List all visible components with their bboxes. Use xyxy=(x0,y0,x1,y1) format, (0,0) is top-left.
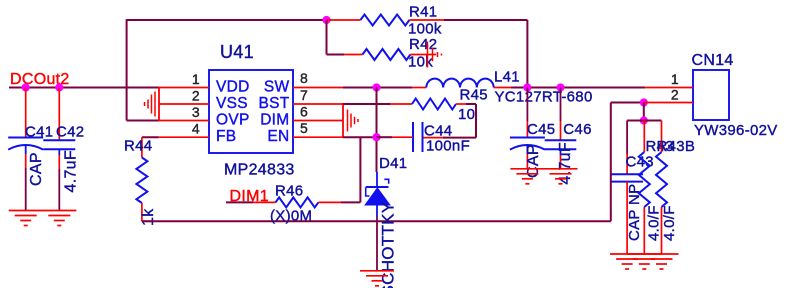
wire SW drop to EN row and D41 xyxy=(376,88,378,173)
diode D41 schottky xyxy=(376,172,378,187)
capacitor C41 xyxy=(25,88,27,138)
svg-text:U41: U41 xyxy=(220,42,254,62)
svg-text:SW: SW xyxy=(264,79,290,96)
ground below C46 xyxy=(544,168,578,170)
svg-text:10: 10 xyxy=(458,106,475,123)
svg-text:1k: 1k xyxy=(140,208,157,226)
U41 pin 5 wire EN xyxy=(293,136,343,138)
node junction dot pin2 net xyxy=(640,98,648,106)
svg-text:YW396-02V: YW396-02V xyxy=(694,122,778,139)
wire R45 to C44 xyxy=(466,103,476,105)
wire SW node run xyxy=(343,87,412,89)
wire dot to parallel bar xyxy=(643,103,645,121)
ground earth symbol right of U41 pin 6 xyxy=(347,110,349,132)
connector CN14 body xyxy=(693,70,729,120)
resistor R43B xyxy=(661,121,663,153)
svg-text:4.0/F: 4.0/F xyxy=(646,205,663,241)
svg-text:6: 6 xyxy=(300,104,308,120)
wire red bracket tying pins 7,6,5 xyxy=(342,103,344,138)
svg-text:C41: C41 xyxy=(25,124,53,141)
U41 pin 1 wire VDD xyxy=(159,87,209,89)
wire DCOut2 main horizontal net xyxy=(9,87,159,89)
svg-text:2: 2 xyxy=(192,88,200,104)
ground below C42 xyxy=(42,210,76,212)
svg-text:1: 1 xyxy=(671,71,679,87)
svg-text:R46: R46 xyxy=(275,183,303,200)
svg-text:YC127RT-680: YC127RT-680 xyxy=(495,89,593,106)
ground below D41 xyxy=(360,270,394,272)
ground earth symbol at R42 right xyxy=(427,42,429,68)
svg-text:4.0/F: 4.0/F xyxy=(661,205,678,241)
svg-text:C46: C46 xyxy=(563,121,591,138)
ground earth symbol left of U41 pins 2-3 xyxy=(154,92,156,117)
svg-text:MP24833: MP24833 xyxy=(224,162,295,179)
U41 pin 4 wire FB xyxy=(159,136,209,138)
U41 pin 7 wire BST xyxy=(293,103,343,105)
ground below C43 xyxy=(610,253,644,255)
U41 pin 8 wire SW xyxy=(293,87,343,89)
svg-text:R43B: R43B xyxy=(657,138,696,155)
wire parallel bar xyxy=(627,120,661,122)
U41 pin 2 wire VSS xyxy=(159,103,209,105)
node junction dot parallel bar xyxy=(640,116,648,124)
svg-text:8: 8 xyxy=(300,70,308,86)
wire EN drop to R46 xyxy=(359,137,361,202)
CN14 pin 2 wire xyxy=(644,102,693,104)
svg-text:100k: 100k xyxy=(408,21,442,38)
op-amp U41 MP24833 IC body xyxy=(209,70,293,153)
svg-text:CAP: CAP xyxy=(28,152,45,186)
resistor R46 xyxy=(253,201,276,203)
ground below C41 xyxy=(9,210,43,212)
resistor R44 xyxy=(142,136,159,138)
svg-text:CN14: CN14 xyxy=(692,52,734,69)
capacitor C46 xyxy=(560,88,562,122)
ground below R43B xyxy=(645,253,679,255)
svg-text:4.7uF: 4.7uF xyxy=(63,150,80,192)
svg-text:C45: C45 xyxy=(527,121,555,138)
svg-text:C42: C42 xyxy=(56,124,84,141)
node junction dot C41 tap xyxy=(22,83,30,91)
node junction dot R41/R42 left xyxy=(322,16,330,24)
resistor R43 xyxy=(643,121,645,153)
wire bottom ground rail xyxy=(142,220,611,222)
svg-text:OVP: OVP xyxy=(216,112,250,129)
svg-text:FB: FB xyxy=(216,128,236,145)
svg-text:2: 2 xyxy=(671,87,679,103)
svg-text:(X)0M: (X)0M xyxy=(270,208,312,225)
wire top feedback loop horizontal xyxy=(127,19,327,21)
svg-text:L41: L41 xyxy=(494,69,520,86)
svg-text:R44: R44 xyxy=(124,138,152,155)
wire CN14 pin2 net horizontal xyxy=(611,102,644,104)
inductor L41 xyxy=(412,87,426,89)
svg-text:100nF: 100nF xyxy=(426,138,470,155)
svg-text:4: 4 xyxy=(192,121,200,137)
wire EN row to SW-net dot xyxy=(343,136,377,138)
wire red bracket tying pins 1-3 xyxy=(158,87,160,122)
wire rail riser right xyxy=(610,103,612,222)
node junction dot C42 tap xyxy=(55,83,63,91)
resistor R45 xyxy=(390,103,412,105)
resistor R42 xyxy=(344,54,363,56)
svg-text:3: 3 xyxy=(192,104,200,120)
node junction dot C46 tap xyxy=(556,83,564,91)
svg-text:D41: D41 xyxy=(379,155,407,172)
svg-text:R41: R41 xyxy=(409,4,437,21)
capacitor C43 xyxy=(626,121,628,154)
U41 pin 3 wire OVP xyxy=(159,120,209,122)
svg-text:5: 5 xyxy=(300,120,308,136)
capacitor C42 xyxy=(58,88,60,141)
wire R41 to output node corner xyxy=(444,19,527,21)
svg-text:CAP: CAP xyxy=(525,144,542,178)
wire R42 branch drop xyxy=(326,20,328,55)
svg-text:EN: EN xyxy=(267,128,289,145)
svg-text:VSS: VSS xyxy=(216,95,248,112)
svg-text:10k: 10k xyxy=(408,54,433,71)
svg-text:R45: R45 xyxy=(460,87,488,104)
wire BST row to R45 xyxy=(343,103,390,105)
ground below R43 xyxy=(627,253,661,255)
wire L41 output to CN14 xyxy=(511,87,645,89)
svg-text:1: 1 xyxy=(192,71,200,87)
svg-text:BST: BST xyxy=(258,95,289,112)
node junction dot EN/C44 xyxy=(372,133,380,141)
wire DIM1 to R46 xyxy=(226,201,253,203)
svg-text:7: 7 xyxy=(300,87,308,103)
svg-text:VDD: VDD xyxy=(216,79,250,96)
wire top feedback loop vertical left xyxy=(126,19,128,120)
capacitor C45 xyxy=(526,88,528,122)
svg-text:DIM: DIM xyxy=(260,112,289,129)
ground below C45 xyxy=(510,168,544,170)
CN14 pin 1 wire xyxy=(645,87,693,89)
wire bracket bottom pins1-3 xyxy=(127,120,159,122)
wire D41 anode to ground xyxy=(376,217,378,271)
node junction dot SW xyxy=(372,83,380,91)
resistor R41 xyxy=(327,19,361,21)
capacitor C44 xyxy=(423,137,444,139)
U41 pin 6 wire DIM xyxy=(293,120,343,122)
node junction dot output loop xyxy=(523,83,531,91)
